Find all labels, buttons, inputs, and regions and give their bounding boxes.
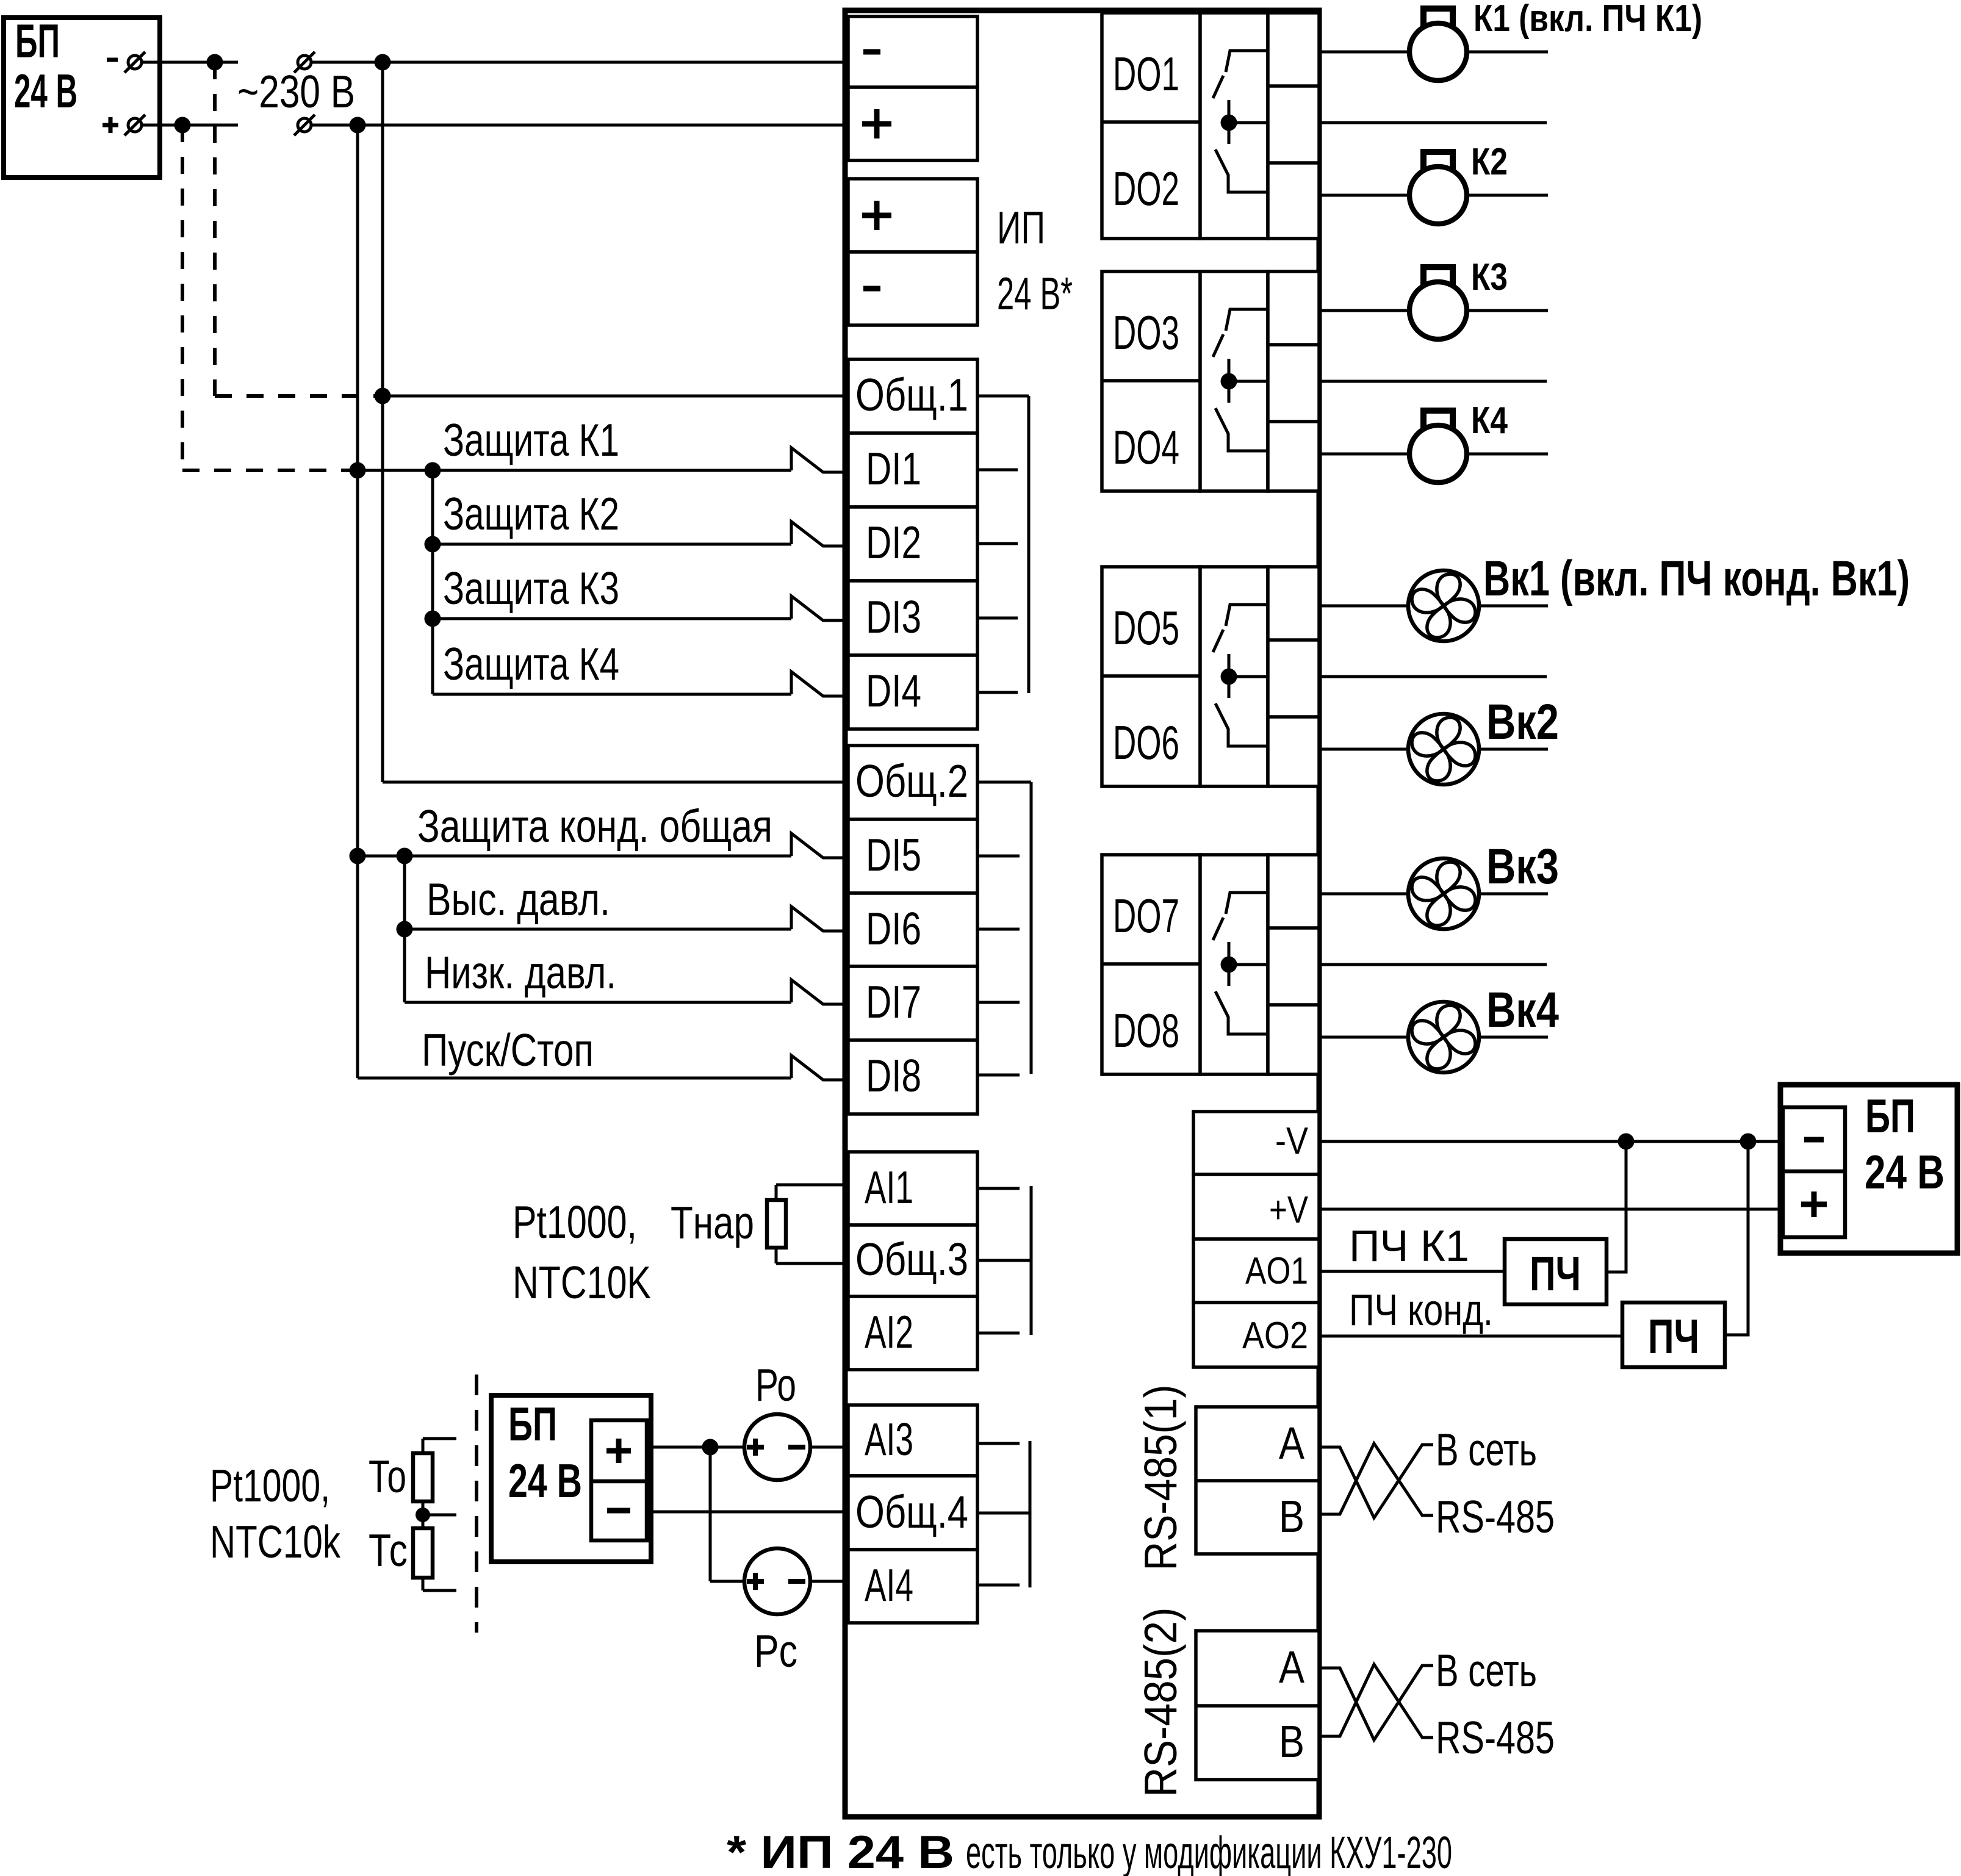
svg-text:DO1: DO1 bbox=[1113, 47, 1179, 101]
svg-text:DI3: DI3 bbox=[866, 591, 921, 642]
svg-text:RS-485: RS-485 bbox=[1436, 1712, 1555, 1763]
svg-text:Рс: Рс bbox=[754, 1625, 797, 1677]
svg-text:~230 В: ~230 В bbox=[237, 66, 355, 117]
svg-text:DO2: DO2 bbox=[1113, 162, 1179, 215]
svg-text:ИП: ИП bbox=[997, 202, 1045, 253]
svg-text:Вк2: Вк2 bbox=[1486, 694, 1559, 750]
svg-text:БП: БП bbox=[15, 14, 60, 68]
svg-text:В сеть: В сеть bbox=[1436, 1424, 1537, 1475]
svg-text:B: B bbox=[1279, 1716, 1304, 1767]
svg-text:К3: К3 bbox=[1471, 256, 1508, 298]
svg-text:DI6: DI6 bbox=[866, 903, 921, 954]
svg-text:RS-485(1): RS-485(1) bbox=[1135, 1385, 1186, 1571]
svg-text:То: То bbox=[369, 1451, 406, 1502]
svg-text:DI8: DI8 bbox=[866, 1050, 921, 1101]
svg-text:ПЧ конд.: ПЧ конд. bbox=[1349, 1286, 1493, 1335]
svg-text:Низк. давл.: Низк. давл. bbox=[425, 947, 616, 998]
svg-text:NTC10K: NTC10K bbox=[513, 1257, 651, 1308]
svg-text:К2: К2 bbox=[1471, 141, 1508, 183]
svg-text:AO2: AO2 bbox=[1242, 1315, 1308, 1357]
svg-text:Общ.4: Общ.4 bbox=[855, 1486, 968, 1537]
svg-text:AI4: AI4 bbox=[865, 1559, 913, 1611]
svg-text:К1 (вкл. ПЧ К1): К1 (вкл. ПЧ К1) bbox=[1473, 0, 1702, 40]
svg-text:DI2: DI2 bbox=[866, 517, 921, 568]
svg-text:Вк1 (вкл. ПЧ конд. Вк1): Вк1 (вкл. ПЧ конд. Вк1) bbox=[1483, 551, 1910, 606]
svg-text:DO4: DO4 bbox=[1113, 420, 1179, 474]
svg-text:Pt1000,: Pt1000, bbox=[513, 1196, 637, 1248]
svg-text:Защита конд. общая: Защита конд. общая bbox=[417, 800, 772, 852]
svg-text:Защита К4: Защита К4 bbox=[443, 638, 619, 689]
svg-text:БП: БП bbox=[1865, 1089, 1915, 1143]
svg-text:AI2: AI2 bbox=[865, 1306, 913, 1357]
svg-text:БП: БП bbox=[508, 1397, 557, 1451]
svg-text:B: B bbox=[1279, 1491, 1304, 1542]
svg-text:Выс. давл.: Выс. давл. bbox=[426, 874, 610, 925]
svg-text:DI5: DI5 bbox=[866, 829, 921, 880]
svg-text:AI3: AI3 bbox=[865, 1414, 913, 1465]
svg-text:24 В: 24 В bbox=[14, 64, 77, 118]
svg-text:Защита К3: Защита К3 bbox=[443, 562, 619, 614]
svg-text:Вк3: Вк3 bbox=[1486, 839, 1559, 894]
svg-text:DO6: DO6 bbox=[1113, 716, 1179, 769]
svg-text:В сеть: В сеть bbox=[1436, 1645, 1537, 1696]
svg-text:AO1: AO1 bbox=[1245, 1250, 1308, 1292]
svg-text:Общ.2: Общ.2 bbox=[855, 755, 968, 807]
svg-text:есть только у модификации КХУ1: есть только у модификации КХУ1-230 bbox=[966, 1827, 1452, 1876]
svg-text:DO5: DO5 bbox=[1113, 601, 1179, 655]
svg-text:A: A bbox=[1279, 1418, 1305, 1468]
svg-text:A: A bbox=[1279, 1642, 1305, 1692]
svg-text:К4: К4 bbox=[1471, 400, 1508, 442]
svg-text:Тнар: Тнар bbox=[671, 1197, 754, 1248]
svg-text:-V: -V bbox=[1275, 1120, 1309, 1162]
svg-text:Pt1000,: Pt1000, bbox=[210, 1460, 330, 1511]
svg-text:RS-485(2): RS-485(2) bbox=[1135, 1608, 1186, 1797]
svg-text:Тс: Тс bbox=[369, 1525, 408, 1576]
svg-text:* ИП 24 В: * ИП 24 В bbox=[727, 1827, 954, 1876]
svg-text:ПЧ: ПЧ bbox=[1530, 1246, 1581, 1301]
svg-text:24 В*: 24 В* bbox=[997, 268, 1073, 319]
svg-text:AI1: AI1 bbox=[865, 1162, 913, 1213]
svg-text:Защита К2: Защита К2 bbox=[443, 488, 619, 539]
svg-text:DI4: DI4 bbox=[866, 665, 921, 716]
svg-text:24 В: 24 В bbox=[508, 1454, 582, 1508]
svg-text:ПЧ К1: ПЧ К1 bbox=[1349, 1222, 1469, 1271]
svg-text:Защита К1: Защита К1 bbox=[443, 414, 619, 465]
svg-text:+V: +V bbox=[1269, 1189, 1309, 1231]
svg-text:RS-485: RS-485 bbox=[1436, 1491, 1555, 1542]
svg-text:Ро: Ро bbox=[755, 1359, 796, 1411]
svg-text:ПЧ: ПЧ bbox=[1648, 1309, 1699, 1364]
svg-text:NTC10k: NTC10k bbox=[210, 1516, 340, 1567]
svg-text:DO3: DO3 bbox=[1113, 306, 1179, 359]
svg-text:Общ.1: Общ.1 bbox=[855, 369, 968, 420]
svg-text:DO7: DO7 bbox=[1113, 889, 1179, 943]
svg-text:DI1: DI1 bbox=[866, 443, 921, 494]
svg-text:Вк4: Вк4 bbox=[1486, 982, 1559, 1038]
svg-text:DO8: DO8 bbox=[1113, 1004, 1179, 1057]
svg-text:Общ.3: Общ.3 bbox=[855, 1234, 968, 1285]
svg-text:24 В: 24 В bbox=[1865, 1145, 1945, 1199]
svg-text:DI7: DI7 bbox=[866, 976, 921, 1027]
svg-text:Пуск/Стоп: Пуск/Стоп bbox=[422, 1024, 594, 1076]
